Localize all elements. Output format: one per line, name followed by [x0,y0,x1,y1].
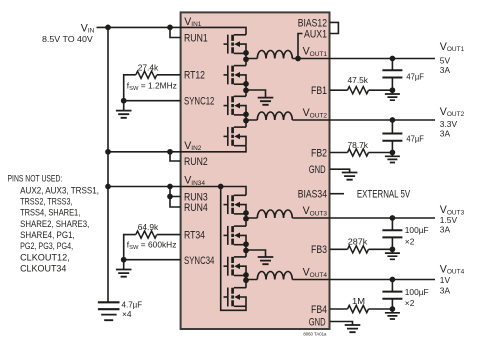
transistor M5 top switch ch3 [224,195,247,214]
svg-text:64.9k: 64.9k [138,222,159,232]
wire RUN3 RUN4 bracket [170,187,181,208]
node COUT3 bottom [390,246,396,252]
resistor RT12 27.4k [136,71,157,78]
svg-text:RT12: RT12 [184,70,205,82]
svg-text:100µF: 100µF [405,287,429,297]
value 1M [352,296,365,306]
net label VOUT1 5V 3A [440,41,465,75]
wire BIAS12 to AUX1 loop [330,22,338,33]
value fSW = 1.2MHz [127,81,177,93]
wire RUN2 bracket [170,152,181,161]
value fSW = 600kHz [127,240,177,252]
resistor RFB2 78.7k [348,149,369,156]
svg-text:TRSS2, TRSS3,: TRSS2, TRSS3, [20,197,72,208]
inductor L3 [257,210,292,218]
IC body U1 [181,12,330,329]
svg-text:EXTERNAL 5V: EXTERNAL 5V [357,188,411,200]
capacitor CIN 4.7uF x4 [98,302,120,320]
value 27.4k [138,62,159,72]
node COUT4 top [390,277,396,283]
svg-text:VIN: VIN [81,22,95,34]
net label VIN [81,22,95,34]
wire FB4 [330,308,392,310]
wire VOUT4 [246,279,435,281]
wire RT34 to ground node [124,235,136,260]
svg-text:1V: 1V [440,275,451,285]
pin label GND12 [309,164,326,176]
svg-text:PINS NOT USED:: PINS NOT USED: [8,174,63,185]
svg-text:×2: ×2 [405,298,415,308]
capacitor COUT4 100uF [382,280,402,310]
svg-text:3.3V: 3.3V [440,119,458,129]
wire AUX1 to VOUT1 [298,34,303,59]
pin label FB2 [311,147,327,159]
node COUT4 bottom [390,306,396,312]
svg-text:FB2: FB2 [311,147,327,159]
ground COUT4/FB4 [385,309,400,319]
wire VOUT2 [246,119,435,121]
inductor L1 [257,51,292,59]
svg-text:FB3: FB3 [311,244,327,256]
pin label VOUT3 [303,205,328,217]
resistor RT34 64.9k [136,231,157,238]
pin label FB1 [311,85,327,97]
pin label RUN3 [184,191,208,203]
internal VIN34 left rail to M8 [221,187,246,311]
svg-text:47µF: 47µF [406,134,424,144]
svg-text:FB1: FB1 [311,85,327,97]
wire RT12 [157,74,181,76]
value 47uF ch2 [406,134,424,144]
node SW3 [243,210,249,221]
svg-text:287k: 287k [348,236,368,246]
wire BIAS34 [330,193,344,195]
inductor L4 [257,272,292,280]
pin label AUX1 [304,28,327,40]
svg-text:GND: GND [309,164,326,176]
node SW4 [243,272,249,283]
capacitor COUT1 47uF [382,59,402,91]
value 47.5k [348,75,369,85]
wire RT12 to ground node [124,75,136,101]
svg-text:8060 TA01a: 8060 TA01a [303,331,327,336]
node VOUT1/AUX1 [295,56,301,62]
pin label RUN2 [184,156,208,168]
wire VOUT1 [246,58,435,60]
pin label VIN2 [184,140,202,152]
transistor M2 bottom switch ch1 [224,65,247,84]
net label EXTERNAL 5V [357,188,411,200]
value 287k [348,236,368,246]
ground COUT1/FB1 [385,90,400,100]
pin label RT34 [184,229,205,241]
wire VIN34 [108,187,246,196]
svg-text:RUN1: RUN1 [184,32,208,44]
svg-text:fSW = 1.2MHz: fSW = 1.2MHz [127,81,177,93]
ground COUT3/FB3 [385,249,400,259]
pin label BIAS12 [298,17,327,29]
pin label RUN1 [184,32,208,44]
wire GND34 pin [330,322,360,333]
wire FB1 [330,89,392,91]
svg-text:×4: ×4 [122,309,132,319]
pin label BIAS34 [298,189,327,201]
svg-text:3A: 3A [440,224,451,234]
transistor M1 top switch ch1 [224,35,247,54]
pin label VOUT1 [303,46,328,58]
wire FB3 [330,248,392,250]
value 64.9k [138,222,159,232]
pin label VIN34 [184,175,205,187]
svg-text:1M: 1M [352,296,365,306]
net label VOUT4 1V 3A [440,263,465,295]
svg-text:AUX2, AUX3, TRSS1,: AUX2, AUX3, TRSS1, [20,185,99,196]
svg-text:RUN4: RUN4 [184,202,208,214]
svg-text:VOUT1: VOUT1 [440,41,465,53]
svg-text:TRSS4, SHARE1,: TRSS4, SHARE1, [20,208,80,219]
value 8.5V TO 40V [42,34,93,44]
svg-text:47µF: 47µF [406,71,424,81]
ground RT12/SYNC12 [116,101,132,118]
node RT12 SYNC12 [121,98,127,104]
internal ground power stage 1/2 [246,90,273,105]
wire VIN input to VIN1 pin and M1 drain [97,27,247,34]
wire RT34 [157,234,181,236]
net label VOUT2 3.3V 3A [440,106,465,139]
svg-text:CLKOUT34: CLKOUT34 [20,264,67,275]
wire VIN2 [108,146,246,152]
svg-text:RUN2: RUN2 [184,156,208,168]
transistor M6 bottom switch ch3 [224,226,247,245]
svg-text:8.5V TO 40V: 8.5V TO 40V [42,34,93,44]
svg-text:27.4k: 27.4k [138,62,159,72]
wire RUN1 bracket [170,27,181,37]
capacitor COUT2 47uF [382,120,402,153]
node RT34 SYNC34 [121,257,127,263]
pin label SYNC12 [184,96,214,108]
pin label SYNC34 [184,255,214,267]
node COUT2 top [390,117,396,123]
wire SYNC34 [124,259,181,261]
wire FB2 [330,152,392,154]
transistor M4 top switch ch2 [224,127,247,146]
svg-text:AUX1: AUX1 [304,28,327,40]
svg-text:SYNC12: SYNC12 [184,96,214,108]
node VIN2 rail [105,149,173,155]
node COUT3 top [390,215,396,221]
resistor RFB1 47.5k [348,87,369,94]
pin label FB3 [311,244,327,256]
svg-text:SYNC34: SYNC34 [184,255,214,267]
svg-text:PG2, PG3, PG4,: PG2, PG3, PG4, [20,241,73,252]
node COUT2 bottom [390,150,396,156]
value 100uF x2 ch4 [405,287,429,308]
pin label VIN1 [184,16,202,28]
internal ground power stage 3/4 [246,250,273,264]
pin label VOUT4 [303,267,328,279]
node VIN34 rail [105,184,223,200]
value 100uF x2 ch3 [405,225,429,246]
inductor L2 [257,112,292,120]
value 47uF ch1 [406,71,424,81]
value 4.7uF x4 [122,299,143,319]
figure tag 8060 TA01a [303,331,327,336]
svg-text:RT34: RT34 [184,229,205,241]
svg-text:1.5V: 1.5V [440,215,458,225]
svg-text:CLKOUT12,: CLKOUT12, [20,252,70,263]
svg-text:SHARE4, PG1,: SHARE4, PG1, [20,230,75,241]
svg-text:×2: ×2 [405,236,415,246]
node COUT1 top [390,56,396,62]
net label VOUT3 1.5V 3A [440,204,465,234]
pin label RT12 [184,70,205,82]
node SW2 [243,112,249,124]
capacitor COUT3 100uF [382,218,402,249]
svg-text:47.5k: 47.5k [348,75,369,85]
node PGND34 [243,241,249,253]
wire SYNC12 [124,100,181,102]
internal VIN34 chain verticals ch3/4 [245,214,247,288]
svg-text:3A: 3A [440,65,451,75]
resistor RFB4 1M [348,305,369,312]
transistor M8 top switch ch4 [224,288,247,307]
pin label RUN4 [184,202,208,214]
internal VIN1 chain verticals ch1/2 [245,53,247,127]
node SW1 [243,50,249,62]
note PINS NOT USED [8,174,100,275]
svg-text:VOUT4: VOUT4 [440,263,465,275]
transistor M7 bottom switch ch4 [224,257,247,276]
svg-text:78.7k: 78.7k [348,140,369,150]
svg-text:SHARE2, SHARE3,: SHARE2, SHARE3, [20,219,89,230]
node PGND12 [243,81,249,93]
pin label GND34 [309,316,326,328]
svg-text:3A: 3A [440,286,451,296]
svg-text:BIAS34: BIAS34 [298,189,327,201]
svg-text:5V: 5V [440,56,451,66]
pin label FB4 [311,304,327,316]
svg-text:fSW = 600kHz: fSW = 600kHz [127,240,177,252]
svg-text:3A: 3A [440,128,451,138]
transistor M3 bottom switch ch2 [224,96,247,115]
svg-text:VOUT2: VOUT2 [440,106,465,118]
svg-text:GND: GND [309,316,326,328]
svg-text:100µF: 100µF [405,225,429,235]
value 78.7k [348,140,369,150]
pin label VOUT2 [303,107,328,119]
wire input rail left [107,27,109,301]
ground RT34/SYNC34 [116,260,132,277]
svg-text:FB4: FB4 [311,304,327,316]
resistor RFB3 287k [348,246,369,253]
wire GND12 pin [330,169,357,180]
svg-text:4.7µF: 4.7µF [122,299,143,309]
wire VOUT3 [246,217,435,219]
node VIN [105,25,173,31]
ground COUT2/FB2 [385,153,400,163]
node COUT1 bottom [390,87,396,93]
